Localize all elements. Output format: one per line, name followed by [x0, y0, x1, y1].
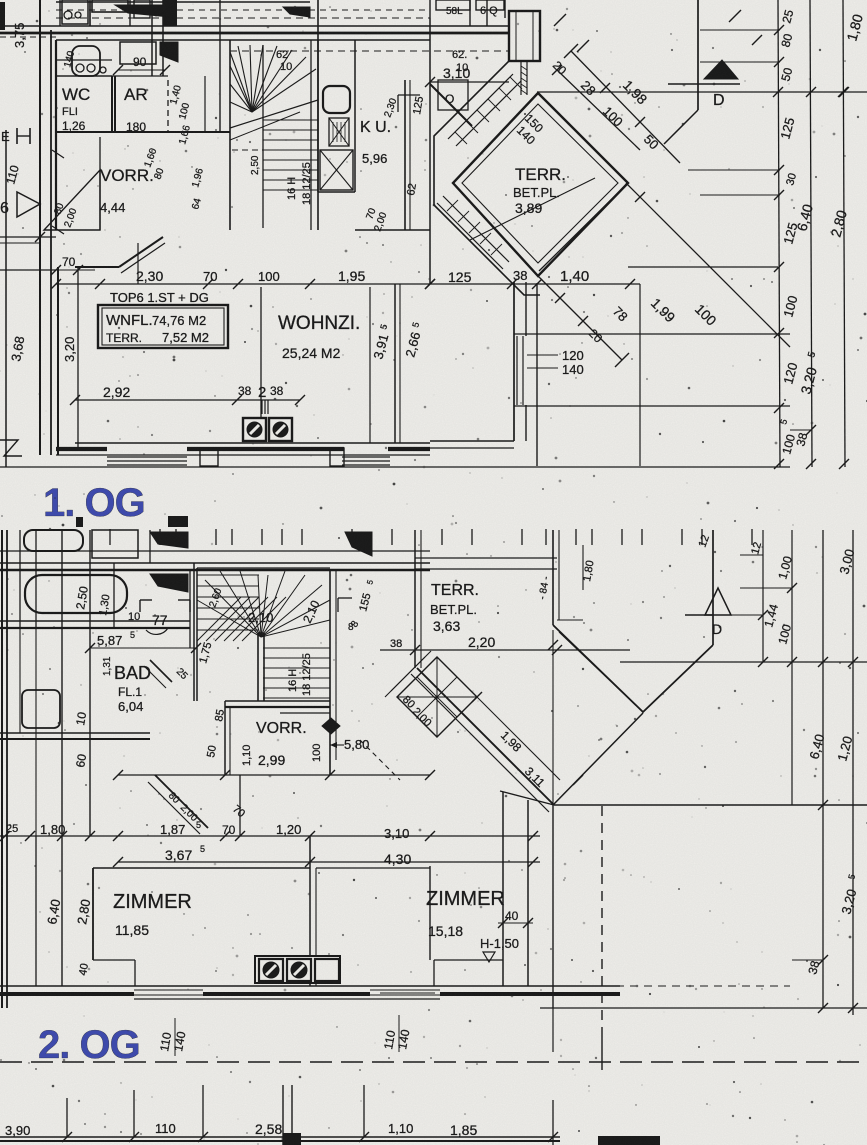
- AR room walls: [114, 76, 116, 132]
- right of stair bracket: [337, 598, 339, 612]
- bathtub: [25, 575, 127, 613]
- separator dash line: [0, 1061, 867, 1063]
- terrace steps band upper left: [448, 74, 513, 139]
- top edge partial walls: [56, 1, 310, 3]
- WC room walls: [55, 40, 57, 132]
- small rooms right of KU at top: [438, 80, 468, 110]
- stub lines into chain: [700, 29, 780, 31]
- right dim chain x810: [810, 0, 812, 467]
- plan2 stair center post: [257, 633, 259, 701]
- zimmer2 left walls: [429, 866, 431, 960]
- vertical right of wohnzimmer: [639, 284, 641, 466]
- VORR2 bottom dim line: [118, 774, 430, 776]
- third plan verticals: [66, 1098, 68, 1137]
- chimney channel down: [520, 61, 522, 95]
- WC fixture: [72, 46, 100, 76]
- left stub lines: [0, 236, 56, 238]
- bottom wall plan1: [75, 442, 430, 444]
- plan2 terrace top double line: [415, 557, 557, 559]
- scan grain overlay: [0, 0, 1, 1]
- corridor VORR walls: [55, 132, 57, 230]
- plan2 horizontal y662: [620, 661, 867, 663]
- plan2 building notch outline: [552, 530, 554, 625]
- VORR2 walls: [224, 701, 226, 775]
- plan2 stair steps right: [263, 647, 330, 649]
- window sill zimmer2: [380, 992, 435, 994]
- right dim chain x778: [778, 0, 780, 467]
- plan2 top wall band: [0, 562, 430, 564]
- plan2 dim row 1 y836: [0, 835, 540, 837]
- door triangle at entrance: [17, 192, 40, 217]
- stub lines to right chain: [514, 333, 790, 335]
- terrace inner diamond: [453, 93, 628, 276]
- plan2 stair steps left: [197, 574, 259, 576]
- plan2 lower verticals: [552, 805, 554, 1008]
- zimmer2 interior step: [434, 959, 503, 961]
- dashed diagonal lower left: [360, 740, 400, 780]
- left bottom corner mark: [0, 440, 22, 456]
- window dim 1.20 1.40 stacked: [527, 354, 558, 356]
- plan2 vertical dim in diamond: [552, 630, 554, 804]
- wohnzimmer right wall: [369, 287, 371, 443]
- dark wedge plan2 a: [150, 532, 188, 548]
- door symbol P77: [139, 600, 141, 612]
- dark wedge top row: [115, 5, 170, 17]
- plan2 right verticals: [762, 530, 764, 662]
- dark wedge small second: [283, 7, 310, 17]
- wall between rooms: [260, 287, 262, 418]
- plan 1.OG left border lines: [5, 130, 7, 467]
- shaft X box: [320, 150, 353, 190]
- terrace dim lower right diagonal: [538, 276, 622, 360]
- right dim chain x843: [843, 0, 845, 467]
- wall diagonal from KU to terrace: [430, 84, 472, 126]
- chimney block top: [509, 11, 540, 61]
- bottom windows plan1: [100, 454, 430, 456]
- plan2 dim row 2 y862: [118, 861, 540, 863]
- stair block outer walls: [219, 0, 221, 132]
- VORR2 door diamond: [322, 718, 340, 734]
- dim 90: [118, 69, 165, 71]
- zimmer2 right wall: [502, 792, 504, 986]
- plan1 base line: [0, 466, 790, 468]
- plan2 left verticals: [1, 530, 3, 1008]
- plan2 dim diagonals: [477, 697, 560, 780]
- terrace steps band lower left: [443, 196, 509, 262]
- wohnzimmer top dim line: [56, 283, 430, 285]
- upper right wall line x700: [697, 0, 699, 110]
- pillar squares plan2: [255, 956, 340, 983]
- clipped wall tops between plans: [109, 529, 111, 545]
- dark wedge plan2 b: [150, 574, 188, 592]
- long horizontal at y92: [537, 91, 867, 93]
- plan2 stair bottom wall: [225, 700, 330, 702]
- plan2 horizontal y805: [554, 804, 867, 806]
- VORR diagonal wall to Wohnzimmer: [119, 237, 163, 267]
- terrace bottom dim line: [430, 283, 640, 285]
- crossed diamond offsets: [391, 651, 431, 691]
- KU room wall: [404, 80, 406, 230]
- third plan dim line: [0, 1136, 560, 1138]
- plan2 right stubs: [740, 554, 763, 556]
- plan2 top clipped fixtures: [24, 530, 83, 551]
- upper wall band with dashed axis: [56, 17, 430, 19]
- terrace outer boundary: [434, 61, 540, 295]
- dim 40 H-150: [498, 922, 533, 924]
- zimmer1 walls: [93, 867, 310, 869]
- KU niche: [398, 94, 420, 96]
- entrance door swing triangle: [44, 170, 100, 230]
- terrace dim diagonals upper right: [557, 70, 640, 150]
- bottom windows plan2: [134, 989, 203, 991]
- plan2 stair hatch upper left: [197, 597, 241, 641]
- kitchen shaft column: [317, 40, 319, 192]
- plan2 outer diagonal wall: [417, 668, 554, 805]
- dim 3.20 rotated: [77, 267, 79, 450]
- BAD door diagonal: [150, 660, 172, 682]
- stair dashed walking line: [232, 149, 318, 151]
- plan2 triangle D: [705, 588, 731, 615]
- top right rooms at edge: [429, 0, 431, 18]
- plan2 wall band y621: [0, 620, 190, 622]
- plan2 upper mid verticals: [414, 530, 416, 668]
- stair flight diagonal: [230, 100, 318, 128]
- BAD lower fixtures: [22, 690, 60, 728]
- D roof hatch triangle plan1: [704, 60, 738, 79]
- zimmer1 interior step: [93, 959, 135, 961]
- stair winder fan: [230, 52, 252, 112]
- shaft vent crossed box: [329, 118, 349, 146]
- bottom partial walls: [0, 1140, 560, 1142]
- plan2 bottom right line: [540, 1007, 867, 1009]
- building right wall with window: [513, 282, 515, 441]
- diagonal wall above zimmer: [155, 775, 208, 828]
- terrace interior diagonal: [470, 178, 595, 240]
- WNFL TERR box: [98, 305, 228, 348]
- plan2 stair outer box: [196, 568, 198, 701]
- interior dim 2.92: [75, 399, 300, 401]
- vertical from diamond bottom vertex: [536, 283, 538, 466]
- pillar squares with circles: [243, 418, 266, 441]
- stair steps: [263, 119, 318, 121]
- plan2 dim line 2.20: [380, 649, 630, 651]
- dark wedge plan2 stair top: [345, 532, 372, 556]
- rot 1.80 label plan2: [582, 545, 584, 590]
- plan2 bottom wall: [0, 985, 620, 987]
- AR fixture dark wedge: [160, 42, 178, 62]
- upper wall piece right: [239, 775, 241, 836]
- notch tick line: [557, 619, 583, 621]
- shaft sink O: [323, 86, 350, 113]
- crossed diamond stair plan2: [397, 657, 477, 737]
- plan2 terrace diamond right: [554, 713, 643, 804]
- plan2 stair fan: [197, 600, 261, 637]
